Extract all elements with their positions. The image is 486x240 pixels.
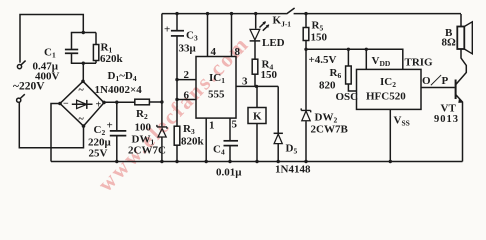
svg-text:D1~D4: D1~D4 [108,70,137,83]
svg-text:400V: 400V [35,71,60,83]
svg-text:LED: LED [262,37,285,49]
svg-text:8: 8 [235,46,241,58]
svg-text:150: 150 [261,69,278,81]
svg-text:~: ~ [79,114,85,125]
svg-text:5: 5 [232,119,238,131]
svg-text:33μ: 33μ [179,43,197,55]
svg-text:25V: 25V [89,148,108,160]
svg-text:O／P: O／P [422,74,449,87]
svg-text:+: + [107,120,113,132]
svg-text:2: 2 [184,69,190,81]
svg-text:2CW7C: 2CW7C [128,145,166,157]
svg-text:1N4002×4: 1N4002×4 [95,84,143,96]
svg-text:0.01μ: 0.01μ [216,167,242,179]
svg-text:+: + [164,24,170,36]
svg-text:−: − [63,99,69,110]
svg-text:6: 6 [184,90,190,102]
svg-text:TRIG: TRIG [405,57,434,69]
svg-text:VT: VT [441,103,457,115]
svg-text:+4.5V: +4.5V [309,54,337,66]
svg-text:3: 3 [242,76,248,88]
svg-text:OSC: OSC [336,91,359,103]
svg-text:820k: 820k [181,136,205,148]
svg-text:2CW7B: 2CW7B [311,124,349,136]
svg-text:4: 4 [211,46,217,58]
svg-text:1N4148: 1N4148 [275,164,311,176]
svg-text:100: 100 [135,122,152,134]
svg-text:1: 1 [209,120,215,132]
svg-text:HFC520: HFC520 [366,91,406,103]
svg-text:~: ~ [79,85,85,96]
svg-text:+: + [96,100,102,111]
svg-text:150: 150 [311,32,328,44]
svg-text:9013: 9013 [434,114,459,125]
svg-text:K: K [253,111,262,123]
svg-text:8Ω: 8Ω [442,37,457,49]
svg-text:555: 555 [208,89,225,101]
svg-text:820: 820 [319,80,336,92]
svg-text:620k: 620k [100,53,124,65]
